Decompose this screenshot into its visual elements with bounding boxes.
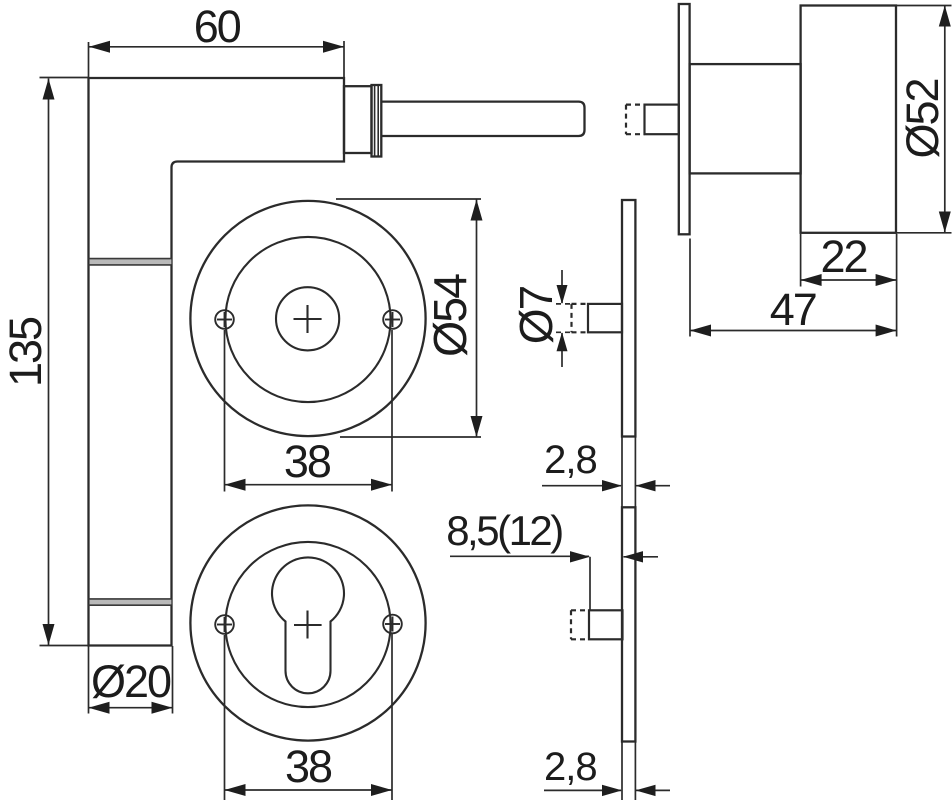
dim 2,8 lower — [544, 789, 621, 791]
arrow Ø20 left — [89, 702, 110, 714]
rosette side view plate upper — [622, 200, 635, 437]
svg-text:Ø52: Ø52 — [897, 79, 948, 158]
svg-text:135: 135 — [0, 317, 51, 387]
handle side view back plate — [679, 4, 690, 234]
svg-text:2,8: 2,8 — [544, 438, 597, 482]
rosette 2 screw right — [383, 615, 402, 634]
upper plate fixing pin solid — [588, 304, 622, 332]
dim 47 — [690, 330, 897, 332]
arrow 2,8U left (points right) — [602, 480, 622, 491]
svg-text:38: 38 — [285, 741, 332, 792]
dim 38 upper — [225, 484, 393, 486]
upper plate fixing pin dashed part — [572, 304, 589, 332]
spindle bar — [381, 102, 584, 136]
arrow 47 left — [690, 325, 711, 337]
handle neck ring — [372, 85, 382, 157]
svg-text:47: 47 — [770, 284, 816, 335]
rosette 2 euro profile cylinder hole — [272, 557, 344, 693]
arrow 8,5 leader (points right) — [570, 551, 590, 562]
dim 8,5(12) leader — [450, 555, 589, 557]
arrow 47 right — [876, 325, 897, 337]
dim Ø52 — [944, 6, 946, 233]
arrow 38L left — [225, 784, 246, 796]
arrow 22 left — [801, 274, 822, 286]
arrow 60 right — [323, 41, 344, 53]
arrow 38U right — [371, 479, 392, 491]
arrow 2,8U right (points left) — [636, 480, 656, 491]
rosette 1 middle circle — [225, 237, 390, 402]
arrow 135 bottom — [43, 624, 55, 645]
dim 38 lower — [225, 789, 393, 791]
dim 2,8 upper — [542, 485, 621, 487]
arrow 8,5 left (points left) — [623, 551, 643, 562]
handle neck collar — [344, 86, 372, 153]
svg-text:Ø7: Ø7 — [510, 286, 562, 344]
arrow 135 top — [43, 79, 55, 100]
dim 60 — [89, 46, 344, 48]
rosette 1 (upper) outer circle — [190, 201, 425, 436]
rosette 2 middle circle — [225, 542, 390, 707]
arrow 2,8L left (points right) — [602, 785, 622, 796]
Ø7 extension ticks dashed — [556, 304, 572, 332]
handle side view spindle pin solid — [645, 105, 679, 135]
rosette 1 spindle hole — [276, 287, 339, 350]
handle side view spindle pin dashed — [626, 105, 645, 135]
lever handle front view outline — [89, 78, 345, 646]
dim Ø20 — [89, 707, 173, 709]
arrow Ø7 bottom (points up) — [557, 332, 568, 351]
rosette 2 (lower) outer circle — [190, 505, 425, 740]
svg-text:Ø20: Ø20 — [91, 656, 171, 707]
handle side view grip — [801, 6, 896, 233]
dim 135 — [48, 79, 50, 646]
arrow Ø20 right — [152, 702, 173, 714]
arrow 22 right — [876, 274, 897, 286]
arrow 2,8L right (points left) — [636, 785, 656, 796]
rosette 2 crosshair — [294, 611, 322, 639]
rosette 1 crosshair — [294, 305, 322, 333]
lower plate fixing pin solid — [589, 610, 623, 639]
svg-text:22: 22 — [820, 231, 866, 282]
plate continuation lines between plates — [622, 437, 635, 508]
arrow Ø7 top (points down) — [557, 285, 568, 304]
handle joint band upper — [89, 259, 172, 265]
rosette 1 screw left — [215, 310, 234, 329]
lower plate fixing pin dashed part — [571, 610, 589, 639]
arrow 38L right — [371, 784, 392, 796]
arrow Ø52 top — [939, 6, 951, 27]
arrow Ø54 top — [471, 200, 483, 221]
arrow Ø54 bottom — [471, 416, 483, 437]
handle side view neck — [690, 64, 801, 173]
dim 22 — [801, 279, 897, 281]
svg-text:Ø54: Ø54 — [424, 274, 476, 357]
dim Ø7 — [561, 270, 563, 303]
svg-text:38: 38 — [284, 436, 331, 487]
plate continuation lines bottom — [622, 742, 635, 800]
svg-text:60: 60 — [194, 1, 241, 52]
svg-text:8,5(12): 8,5(12) — [446, 507, 562, 554]
rosette side view plate lower — [622, 507, 635, 741]
arrow Ø52 bottom — [939, 212, 951, 233]
handle joint band lower — [89, 599, 172, 605]
rosette 2 screw left — [215, 615, 234, 634]
arrow 60 left — [89, 41, 110, 53]
rosette 1 screw right — [383, 310, 402, 329]
dim Ø54 — [476, 200, 478, 438]
arrow 38U left — [225, 479, 246, 491]
svg-text:2,8: 2,8 — [544, 745, 597, 789]
